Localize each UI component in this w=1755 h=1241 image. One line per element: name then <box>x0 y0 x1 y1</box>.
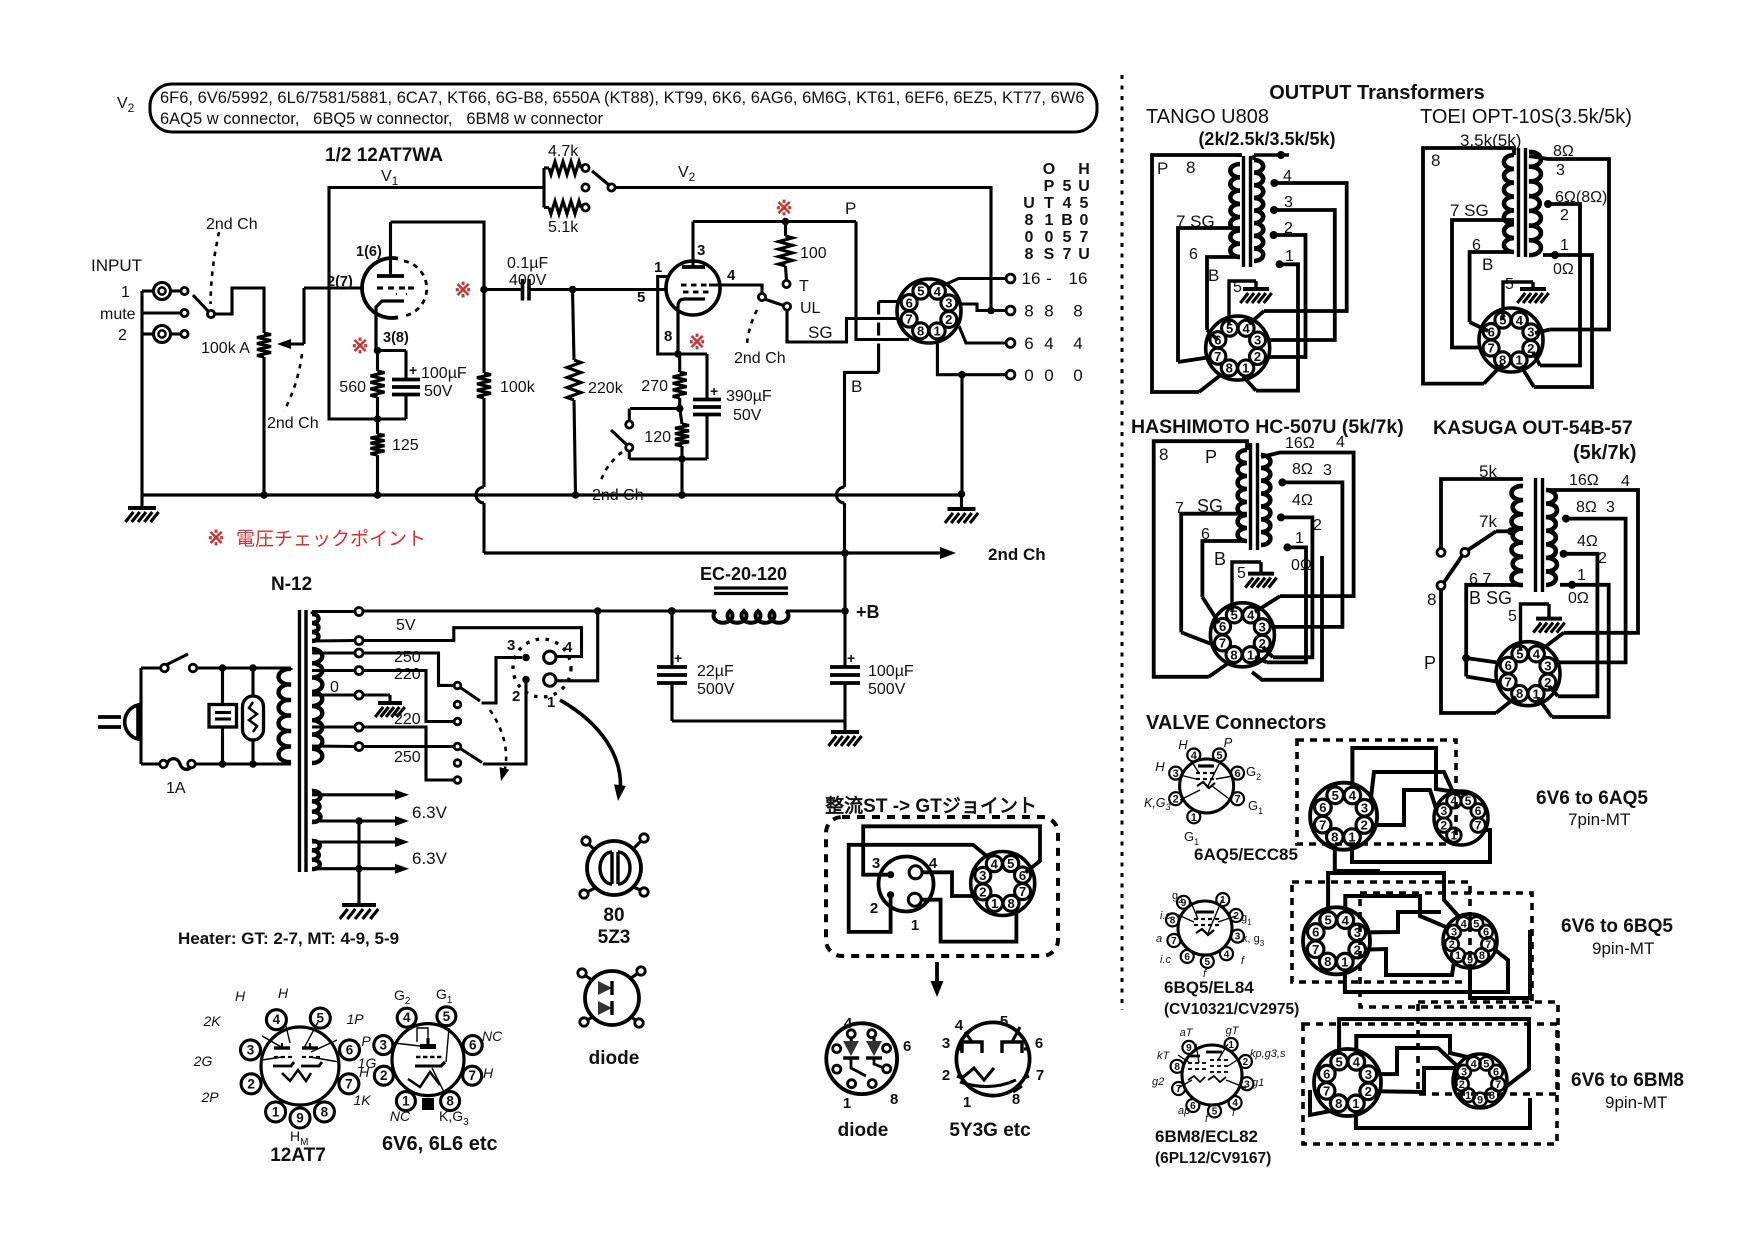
KASUGA tap 1 <box>1568 581 1576 589</box>
svg-text:0: 0 <box>1073 366 1082 385</box>
TOEI socket <box>1479 308 1543 372</box>
5Y3G socket <box>956 1022 1029 1095</box>
svg-text:6: 6 <box>1234 768 1240 780</box>
svg-text:1: 1 <box>1242 361 1249 376</box>
svg-text:3(8): 3(8) <box>383 330 409 346</box>
svg-text:2: 2 <box>512 688 520 705</box>
svg-text:0: 0 <box>1024 366 1033 385</box>
TOEI tap 0ohm <box>1551 251 1559 259</box>
resistor 220k grid leak <box>573 290 575 361</box>
junction plate node <box>480 286 488 294</box>
svg-text:B: B <box>1214 549 1226 569</box>
svg-text:4: 4 <box>1073 334 1082 353</box>
svg-text:220k: 220k <box>588 380 624 397</box>
ST pin 1 <box>908 893 921 906</box>
svg-text:0: 0 <box>330 679 339 696</box>
svg-text:3: 3 <box>247 1042 255 1057</box>
svg-text:7: 7 <box>1475 818 1482 832</box>
svg-text:(CV10321/CV2975): (CV10321/CV2975) <box>1164 1001 1299 1018</box>
HASHIMOTO tap 1 <box>1283 543 1291 551</box>
wire V1 plate top run <box>391 222 485 290</box>
ST pin 3 <box>887 871 894 878</box>
svg-text:4: 4 <box>1242 321 1250 336</box>
svg-text:1: 1 <box>1285 248 1294 265</box>
svg-text:16Ω: 16Ω <box>1285 435 1315 452</box>
terminal UL <box>783 303 790 310</box>
svg-text:1: 1 <box>654 259 662 276</box>
TANGO tap 4 <box>1270 179 1278 187</box>
row2 wire B <box>1345 896 1448 928</box>
svg-text:1: 1 <box>1455 950 1461 962</box>
svg-text:4: 4 <box>564 639 573 656</box>
svg-text:5: 5 <box>1508 608 1517 625</box>
junction dots on bus <box>260 491 268 499</box>
ground symbol +B <box>843 721 846 731</box>
rectifier pin 1 <box>544 674 556 686</box>
svg-text:1K: 1K <box>353 1092 371 1108</box>
HV tap 220 top <box>312 669 355 672</box>
svg-text:0Ω: 0Ω <box>1568 590 1589 607</box>
svg-text:125: 125 <box>392 437 419 454</box>
diode socket <box>826 1023 897 1094</box>
row3 dashed box B <box>1303 1024 1557 1144</box>
svg-text:2: 2 <box>1284 220 1293 237</box>
svg-text:7: 7 <box>1487 341 1494 356</box>
svg-text:3: 3 <box>380 1038 388 1053</box>
svg-text:HASHIMOTO HC-507U (5k/7k): HASHIMOTO HC-507U (5k/7k) <box>1131 416 1404 438</box>
input selector switch S1 <box>193 295 208 311</box>
svg-text:100k: 100k <box>500 379 536 396</box>
svg-text:5: 5 <box>1212 1107 1218 1118</box>
svg-text:8: 8 <box>1499 353 1506 368</box>
svg-text:50V: 50V <box>424 383 453 400</box>
svg-text:3: 3 <box>1441 804 1448 818</box>
svg-text:8: 8 <box>1174 1062 1180 1073</box>
svg-text:5: 5 <box>1080 195 1089 212</box>
svg-text:9pin-MT: 9pin-MT <box>1592 939 1654 958</box>
2nd Ch dashed link upper <box>211 232 220 304</box>
row2 dashed box B <box>1360 893 1532 1007</box>
capacitor 22uF 500V <box>670 611 673 667</box>
svg-text:7 SG: 7 SG <box>1450 201 1489 220</box>
svg-text:P: P <box>361 1033 371 1049</box>
arrow to 5Z3 <box>560 700 620 793</box>
svg-text:0.1µF: 0.1µF <box>507 255 548 272</box>
svg-text:5: 5 <box>1465 794 1472 808</box>
svg-text:2: 2 <box>1598 550 1607 567</box>
svg-text:TANGO U808: TANGO U808 <box>1146 106 1269 128</box>
wire SG <box>787 310 898 342</box>
junction 270/120 <box>676 405 684 413</box>
svg-text:P: P <box>845 199 856 218</box>
KASUGA 5k wire <box>1441 479 1523 549</box>
junction grid node <box>569 286 577 294</box>
svg-text:1: 1 <box>843 1095 851 1112</box>
svg-text:P: P <box>1044 178 1055 195</box>
svg-text:OUTPUT Transformers: OUTPUT Transformers <box>1269 82 1485 104</box>
svg-text:2K: 2K <box>202 1013 221 1029</box>
svg-text:1: 1 <box>1228 1040 1234 1051</box>
svg-text:6: 6 <box>346 1042 354 1057</box>
svg-text:100: 100 <box>800 245 827 262</box>
junction V2 cathode <box>674 350 682 358</box>
svg-text:5: 5 <box>1335 1054 1342 1069</box>
svg-text:U: U <box>1078 246 1090 263</box>
svg-text:5: 5 <box>1516 646 1523 661</box>
svg-text:T: T <box>799 278 809 295</box>
row2 wire F <box>1470 930 1530 998</box>
svg-text:3: 3 <box>1544 658 1551 673</box>
resistor 4.7k <box>542 168 545 208</box>
svg-text:1: 1 <box>911 917 919 934</box>
svg-text:8: 8 <box>1007 896 1014 911</box>
TANGO P box outline <box>1152 155 1240 392</box>
ST pin 4 <box>909 866 922 879</box>
pinout 6AQ5 internals <box>1198 764 1214 767</box>
svg-text:6: 6 <box>1214 332 1221 347</box>
svg-text:1: 1 <box>1341 954 1348 969</box>
svg-text:(2k/2.5k/3.5k/5k): (2k/2.5k/3.5k/5k) <box>1198 129 1335 149</box>
T1 6.3V winding A <box>312 791 321 822</box>
row1 wire B <box>1371 772 1454 802</box>
resistor 100k plate load <box>482 290 485 374</box>
V1 plate <box>377 274 404 278</box>
wire 220top to selector <box>363 671 454 722</box>
svg-text:8: 8 <box>917 324 924 339</box>
TANGO primary coil <box>1230 164 1240 257</box>
svg-text:6V6 to 6AQ5: 6V6 to 6AQ5 <box>1536 788 1648 809</box>
svg-text:2: 2 <box>1354 942 1361 957</box>
svg-text:7: 7 <box>1323 1084 1330 1099</box>
svg-text:KASUGA OUT-54B-57: KASUGA OUT-54B-57 <box>1433 417 1633 439</box>
svg-text:i.c: i.c <box>1160 954 1172 966</box>
svg-text:0: 0 <box>1080 212 1089 229</box>
svg-text:H: H <box>278 985 289 1001</box>
jack J1 <box>154 283 171 300</box>
5Y3G filament <box>962 1068 994 1080</box>
svg-text:T: T <box>1044 195 1054 212</box>
2nd Ch dashed link UL switch <box>747 310 757 344</box>
HV tap 0 <box>312 693 355 696</box>
row3 wire A <box>1339 1019 1529 1088</box>
svg-text:8: 8 <box>1431 151 1440 170</box>
row3 wire F <box>1310 1090 1335 1115</box>
svg-text:500V: 500V <box>868 681 906 698</box>
arrow 2nd Ch <box>940 547 956 559</box>
svg-text:2: 2 <box>942 1067 950 1084</box>
svg-text:i.c: i.c <box>1160 910 1172 922</box>
junction V1 cathode <box>374 347 382 355</box>
svg-text:1: 1 <box>1045 212 1054 229</box>
svg-text:5: 5 <box>1007 856 1014 871</box>
svg-text:1A: 1A <box>166 780 186 797</box>
row2 wire C <box>1365 912 1441 932</box>
HASHIMOTO secondary coil <box>1261 455 1270 545</box>
svg-text:2: 2 <box>118 327 127 344</box>
svg-text:2: 2 <box>1259 636 1266 651</box>
HASHIMOTO tap 4 <box>1277 513 1285 521</box>
svg-text:6: 6 <box>1024 334 1033 353</box>
svg-text:80: 80 <box>603 905 624 926</box>
svg-text:6: 6 <box>1019 868 1026 883</box>
V2 grid dashes row2 <box>683 291 689 294</box>
terminal 0 <box>1006 370 1015 379</box>
junction B line <box>841 549 849 557</box>
svg-text:S: S <box>1044 246 1055 263</box>
svg-text:4: 4 <box>1342 913 1350 928</box>
svg-text:8Ω: 8Ω <box>1292 461 1313 478</box>
svg-text:4: 4 <box>1063 195 1072 212</box>
svg-text:kp,g3,s: kp,g3,s <box>1250 1048 1286 1060</box>
row3 9pin socket <box>1453 1054 1507 1108</box>
svg-text:8: 8 <box>1044 302 1053 321</box>
5Y3G plates <box>962 1042 982 1053</box>
wire mains riser <box>139 668 142 722</box>
svg-text:電圧チェックポイント: 電圧チェックポイント <box>236 528 426 550</box>
svg-text:6: 6 <box>1184 952 1190 963</box>
svg-text:1: 1 <box>991 896 998 911</box>
wire lower selector to pin2 <box>483 683 526 764</box>
svg-text:H: H <box>1178 737 1188 752</box>
svg-text:5: 5 <box>1205 957 1211 968</box>
V2 cathode <box>678 299 705 354</box>
wire feedback left riser <box>329 188 544 420</box>
KASUGA tap 8 <box>1562 515 1570 523</box>
svg-text:4: 4 <box>1461 919 1468 931</box>
svg-text:7k: 7k <box>1479 512 1497 531</box>
svg-text:5: 5 <box>1324 913 1331 928</box>
svg-text:2: 2 <box>247 1076 255 1091</box>
svg-text:9: 9 <box>1467 955 1473 967</box>
svg-text:6: 6 <box>1219 619 1226 634</box>
svg-text:1: 1 <box>1577 567 1586 584</box>
svg-text:4: 4 <box>727 267 736 284</box>
svg-text:8: 8 <box>1186 158 1195 177</box>
svg-text:※: ※ <box>688 331 706 354</box>
svg-text:8: 8 <box>664 328 672 345</box>
KASUGA primary coil <box>1511 486 1523 585</box>
svg-text:6V6, 6L6 etc: 6V6, 6L6 etc <box>382 1133 498 1155</box>
svg-text:6BQ5/EL84: 6BQ5/EL84 <box>1164 978 1254 997</box>
svg-text:2: 2 <box>1527 341 1534 356</box>
svg-text:4: 4 <box>844 1015 853 1032</box>
svg-text:5: 5 <box>1226 321 1233 336</box>
pinout 6BM8 internals <box>1190 1055 1200 1058</box>
svg-text:8: 8 <box>1331 830 1338 845</box>
V1 cathode <box>376 301 404 350</box>
svg-text:2: 2 <box>979 885 986 900</box>
svg-text:4: 4 <box>1191 750 1198 762</box>
resistor 120 <box>680 409 682 425</box>
HV tap 220 bottom <box>312 725 355 728</box>
svg-text:2: 2 <box>1254 349 1261 364</box>
HASHIMOTO socket <box>1210 603 1274 667</box>
svg-text:5: 5 <box>1499 313 1506 328</box>
selector upper arm <box>461 688 480 701</box>
svg-text:6F6, 6V6/5992, 6L6/7581/5881,: 6F6, 6V6/5992, 6L6/7581/5881, 6CA7, KT66… <box>160 89 1085 107</box>
svg-text:4: 4 <box>1224 949 1230 960</box>
T1 6.3V winding B <box>312 841 320 869</box>
svg-text:4: 4 <box>1621 473 1630 490</box>
5V top lead <box>311 612 314 615</box>
rectifier pin 2 <box>522 676 530 684</box>
wire 220bot to selector <box>363 727 454 780</box>
svg-text:12AT7: 12AT7 <box>270 1145 326 1166</box>
svg-text:EC-20-120: EC-20-120 <box>700 564 787 584</box>
svg-text:6: 6 <box>1505 658 1512 673</box>
svg-text:220: 220 <box>394 666 421 683</box>
svg-text:H: H <box>1078 161 1090 178</box>
wire P to socket pin8 <box>856 222 909 340</box>
svg-text:2(7): 2(7) <box>327 274 353 290</box>
svg-text:Heater: GT: 2-7, MT: 4-9, 5-9: Heater: GT: 2-7, MT: 4-9, 5-9 <box>178 929 399 948</box>
selector lower contacts <box>454 743 461 750</box>
svg-text:B SG: B SG <box>1469 588 1512 608</box>
svg-text:INPUT: INPUT <box>91 256 142 275</box>
svg-text:NC: NC <box>390 1108 411 1124</box>
wire V2 plate to top <box>691 222 694 268</box>
tube diode symbol <box>585 971 639 1025</box>
svg-text:ap: ap <box>1178 1105 1190 1117</box>
svg-text:U: U <box>1023 195 1035 212</box>
svg-text:diode: diode <box>589 1048 640 1069</box>
pot wiper arrow <box>281 342 304 345</box>
resistor 125 <box>376 419 379 434</box>
KASUGA tap 4 <box>1560 550 1568 558</box>
svg-text:3: 3 <box>1361 801 1368 816</box>
svg-text:mute: mute <box>100 306 136 323</box>
selector lower arm <box>461 749 482 763</box>
wire jack1 to bus <box>142 289 154 292</box>
svg-text:8: 8 <box>1226 361 1233 376</box>
wire cathode junction to cap <box>378 349 407 352</box>
svg-text:100µF: 100µF <box>868 663 914 680</box>
svg-text:6: 6 <box>1319 800 1326 815</box>
wire plate node P run <box>693 220 856 223</box>
svg-text:3: 3 <box>945 296 952 311</box>
feedback switch S2 <box>582 184 589 191</box>
svg-text:6V6 to 6BM8: 6V6 to 6BM8 <box>1571 1070 1684 1091</box>
svg-text:7: 7 <box>468 1068 476 1083</box>
KASUGA secondary coil <box>1546 490 1557 585</box>
pinout 6V6 <box>374 1007 482 1111</box>
svg-text:N-12: N-12 <box>271 574 312 595</box>
junction +B <box>841 607 849 615</box>
row2 wire A <box>1328 873 1460 918</box>
svg-text:P: P <box>1424 653 1436 673</box>
svg-text:1: 1 <box>1532 686 1539 701</box>
svg-text:※: ※ <box>207 527 225 550</box>
svg-text:6: 6 <box>903 1038 911 1055</box>
arrow ST to diode <box>935 962 939 984</box>
svg-text:4Ω: 4Ω <box>1292 492 1313 509</box>
svg-text:3: 3 <box>1527 325 1534 340</box>
row3 wire B <box>1356 1036 1469 1058</box>
svg-text:4.7k: 4.7k <box>548 143 579 160</box>
pinout 6AQ5 mini <box>1180 759 1234 813</box>
svg-text:5: 5 <box>1332 788 1339 803</box>
svg-text:NC: NC <box>482 1028 503 1044</box>
wire ST4 to GT2 <box>922 872 974 896</box>
svg-text:1: 1 <box>933 324 940 339</box>
svg-text:50V: 50V <box>733 407 762 424</box>
svg-text:6AQ5/ECC85: 6AQ5/ECC85 <box>1194 845 1298 864</box>
TANGO core <box>1242 156 1245 267</box>
junction 0 to ground <box>958 371 966 379</box>
svg-text:0: 0 <box>1025 229 1034 246</box>
svg-text:2: 2 <box>870 900 878 917</box>
svg-text:2P: 2P <box>200 1089 219 1105</box>
svg-text:P: P <box>1224 735 1233 750</box>
T1 HV winding <box>312 649 322 763</box>
wire plate node to cap <box>484 288 523 291</box>
wire pin1 to +B <box>557 611 598 681</box>
pilot lamp <box>243 696 264 740</box>
svg-text:270: 270 <box>641 378 668 395</box>
V1 grid dashes <box>377 286 383 289</box>
TANGO tap 1 <box>1276 260 1284 268</box>
svg-text:4: 4 <box>955 1017 964 1034</box>
svg-text:8: 8 <box>1427 590 1436 609</box>
svg-text:6: 6 <box>1035 1035 1043 1052</box>
svg-text:1: 1 <box>1348 830 1355 845</box>
KASUGA P wire <box>1441 589 1496 713</box>
wire mute <box>142 311 181 314</box>
wire V2 pin1 tie <box>658 277 678 355</box>
KASUGA switch common <box>1437 582 1445 590</box>
svg-text:8: 8 <box>1489 1090 1495 1102</box>
svg-text:2: 2 <box>1173 794 1179 806</box>
svg-text:9pin-MT: 9pin-MT <box>1605 1093 1667 1112</box>
svg-text:5V: 5V <box>396 617 416 634</box>
svg-text:8: 8 <box>1479 950 1485 962</box>
svg-text:1: 1 <box>1247 647 1254 662</box>
svg-text:3: 3 <box>1323 462 1332 479</box>
svg-text:5: 5 <box>1237 565 1246 582</box>
KASUGA core <box>1534 478 1537 592</box>
svg-text:aT: aT <box>1180 1027 1194 1039</box>
TOEI tap 6ohm <box>1544 200 1552 208</box>
capacitor 100uF 50V <box>404 351 407 380</box>
svg-text:4: 4 <box>1336 434 1345 451</box>
choke EC-20-120 <box>714 586 788 589</box>
row1 wire C <box>1372 790 1437 825</box>
HV tap 250 bottom <box>312 744 355 748</box>
svg-text:3: 3 <box>697 242 705 259</box>
svg-text:4: 4 <box>1516 313 1524 328</box>
row1 dashed box <box>1297 740 1456 844</box>
svg-text:8: 8 <box>890 1091 898 1108</box>
svg-text:+B: +B <box>856 602 880 622</box>
row3 wire D <box>1376 1068 1456 1092</box>
svg-text:5: 5 <box>917 284 924 299</box>
terminal 8 <box>1006 306 1015 315</box>
tube V1 1/2 12AT7 envelope <box>362 258 398 318</box>
wire jack2 to bus <box>142 332 154 335</box>
ST GT dashed box <box>826 817 1058 956</box>
socket OPT connector <box>897 279 961 343</box>
svg-text:3: 3 <box>1235 932 1241 943</box>
svg-text:※: ※ <box>775 197 793 220</box>
svg-text:1: 1 <box>402 1094 410 1109</box>
wire pin4 to 16 terminal <box>944 279 1007 286</box>
svg-text:3: 3 <box>1254 333 1261 348</box>
svg-text:16: 16 <box>1069 269 1088 288</box>
diode socket internals <box>850 1038 853 1041</box>
svg-text:1: 1 <box>272 1104 280 1119</box>
svg-text:3: 3 <box>507 637 515 654</box>
svg-text:P: P <box>1157 159 1168 178</box>
